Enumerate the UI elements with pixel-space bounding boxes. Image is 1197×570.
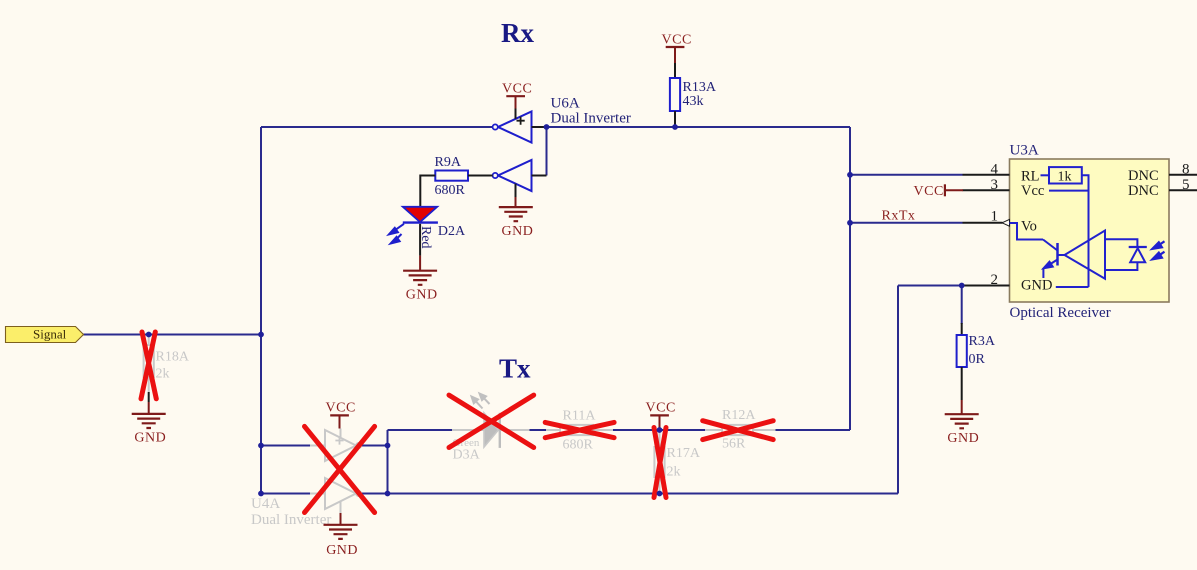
wire Signal row: flag tip to junction (84, 334, 262, 336)
deletion cross D3A (449, 395, 534, 447)
diode D3A triangle (ghost) (484, 413, 498, 447)
photon arrow 2 into photodiode (1152, 252, 1164, 260)
svg-text:GND: GND (502, 224, 534, 239)
svg-text:0R: 0R (969, 352, 986, 367)
diode D3A emission arrow 2 (ghost) (480, 394, 490, 405)
pin 1 line (963, 222, 1003, 224)
power VCC pin3 wire (945, 189, 963, 191)
ground R18A bars (132, 414, 166, 428)
diode D3A left pin (ghost) (452, 429, 484, 431)
deletion cross R18A (141, 332, 156, 399)
op-amp U4A plus mark (ghost) (335, 436, 343, 444)
wire U4A inv1 output bubble to node (361, 445, 388, 447)
resistor R17A bottom pin (ghost) (659, 477, 661, 494)
resistor R18A bottom pin (ghost) (148, 377, 150, 392)
pin 3 line (963, 189, 1010, 191)
junction R13A node (672, 124, 678, 130)
svg-text:GND: GND (326, 543, 358, 558)
pin 2 line (962, 285, 1010, 287)
resistor R3A bottom pin (961, 367, 963, 400)
power VCC U4A wire (339, 415, 341, 428)
diode D2A emission arrow 2 (391, 234, 402, 244)
diode D3A right pin (ghost) (501, 429, 530, 431)
ground R18A wire (148, 402, 150, 414)
ground R3A bars (945, 414, 979, 428)
op-amp U6A inverter 2 output bubble (493, 173, 498, 178)
svg-text:GND: GND (406, 287, 438, 302)
svg-text:R18A: R18A (156, 350, 190, 365)
junction U4A inv2 input (258, 491, 264, 497)
diode D2A cathode bar (403, 221, 438, 223)
junction U4A inv1 output (385, 443, 391, 449)
svg-text:Optical Receiver: Optical Receiver (1010, 305, 1111, 321)
op-amp U4A inverter 2 triangle (ghost) (325, 478, 356, 509)
svg-text:2k: 2k (156, 366, 170, 381)
svg-text:R12A: R12A (722, 408, 756, 423)
op-amp U4A inverter 1 bubble (ghost) (356, 443, 361, 448)
op-amp U6A inverter 2 ground pin (515, 184, 517, 199)
wire internal 1k to vertical rail (1082, 175, 1089, 287)
wire node vertical at U6A input x=546.5 (546, 127, 548, 176)
resistor R11A left pin (ghost) (546, 429, 560, 431)
deletion cross U4A (305, 426, 375, 512)
op-amp U6A inverter 1 plus mark (517, 117, 525, 125)
transistor Q internal collector (1043, 240, 1058, 251)
deletion cross R11A (545, 422, 614, 437)
op-amp U6A inverter 1 triangle (498, 112, 532, 143)
op-amp U4A inverter 2 bubble (ghost) (356, 491, 361, 496)
resistor R18A top pin (ghost) (148, 335, 150, 346)
wire Tx top row: U4A output node to D3A anode pin (388, 429, 453, 431)
junction U4A inv2 output (385, 491, 391, 497)
power VCC U6A wire (515, 96, 517, 108)
svg-text:DNC: DNC (1128, 183, 1159, 199)
svg-text:VCC: VCC (502, 82, 532, 97)
wire pin1 row RxTx: x=850 tap to U3A pin 1 (850, 222, 963, 224)
resistor R17A top pin (ghost) (659, 430, 661, 447)
svg-text:VCC: VCC (662, 32, 692, 47)
wire pin4 row: x=850 tap to U3A pin 4 (850, 174, 963, 176)
diode internal photodiode triangle (1130, 248, 1145, 262)
wire internal photodiode loop top (1105, 239, 1137, 247)
svg-text:Dual Inverter: Dual Inverter (251, 512, 331, 528)
resistor R18A body (ghost) (144, 345, 154, 377)
wire R18A to ground (148, 392, 150, 402)
svg-text:56R: 56R (722, 437, 746, 452)
op-amp U4A inverter 1 triangle (ghost) (325, 430, 356, 461)
junction pin4 tap (847, 172, 853, 178)
power VCC U4A bar (330, 414, 349, 416)
op-amp U6A inverter 2 input pin (532, 175, 547, 177)
wire vertical x=898 up to pin2 row (897, 286, 899, 494)
junction R17A top (657, 427, 663, 433)
svg-text:Tx: Tx (499, 354, 531, 384)
resistor R17A body (ghost) (654, 447, 664, 477)
svg-text:R11A: R11A (563, 409, 597, 424)
op-amp U4A inverter 1 power pin (ghost) (340, 429, 342, 438)
transistor Q internal base bar (1056, 243, 1059, 266)
op-amp internal amplifier triangle (1065, 231, 1106, 279)
svg-text:680R: 680R (435, 183, 466, 198)
ground R3A wire (961, 400, 963, 414)
wire U4A inv2 output bubble to node (361, 493, 388, 495)
resistor R13A top pin (674, 63, 676, 78)
svg-text:U6A: U6A (551, 96, 580, 112)
resistor 1k internal link from RL (1041, 174, 1050, 176)
op-amp U3A body box (1010, 159, 1170, 302)
ground U6A bars (499, 207, 533, 221)
wire Rx row: U6A input node to R13A node to x=850 (547, 126, 851, 128)
wire internal Vo step (1010, 223, 1044, 240)
wire Tx top row: R17A node to R12A left (660, 429, 706, 431)
wire R3A top: node down to resistor (961, 286, 963, 325)
resistor 1k body (1049, 167, 1082, 183)
junction R18A tap (146, 332, 152, 338)
resistor R11A body (ghost) (560, 425, 593, 435)
svg-text:U3A: U3A (1010, 143, 1039, 159)
ground U6A wire (515, 197, 517, 207)
wire Tx top row: x=850 to R12A right pin (776, 429, 851, 431)
svg-text:VCC: VCC (326, 401, 356, 416)
power VCC R13A bar (666, 46, 685, 48)
power VCC U6A bar (506, 95, 525, 97)
op-amp U6A inverter 2 triangle (498, 160, 532, 191)
op-amp U6A inverter 1 output bubble (493, 124, 498, 129)
op-amp U6A inverter 1 input pin (532, 126, 547, 128)
wire internal Vcc to rail (1049, 190, 1089, 192)
junction U6A input node (544, 124, 550, 130)
svg-text:Vo: Vo (1021, 219, 1037, 235)
deletion cross R12A (703, 421, 774, 440)
resistor R12A right pin (ghost) (753, 429, 776, 431)
diode D2A emission arrow 1 (389, 224, 404, 235)
svg-text:R9A: R9A (435, 155, 462, 170)
svg-text:DNC: DNC (1128, 168, 1159, 184)
wire internal base-to-apex (1058, 254, 1065, 256)
svg-text:680R: 680R (563, 437, 594, 452)
power VCC pin3 bar (944, 184, 946, 196)
svg-text:U4A: U4A (251, 496, 280, 512)
pin 1 output arrow (1002, 219, 1010, 226)
transistor Q internal emitter stub (1042, 268, 1044, 278)
resistor R13A bottom pin (674, 111, 676, 127)
wire U4A inv2 input from trunk (261, 493, 310, 495)
ground U4A bars (324, 525, 358, 539)
wire vertical trunk x=261 from Rx row down to U4A bottom input row (260, 127, 262, 494)
ground D2A bars (403, 271, 437, 285)
svg-text:2k: 2k (667, 464, 681, 479)
junction Signal/trunk (258, 332, 264, 338)
resistor R12A body (ghost) (722, 425, 753, 435)
wire U4A output node vertical x=387.5 (387, 430, 389, 494)
svg-text:5: 5 (1182, 177, 1190, 193)
svg-text:Red: Red (418, 226, 433, 249)
power VCC R13A wire (674, 47, 676, 63)
diode D3A emission arrow 1 (ghost) (472, 397, 483, 409)
op-amp U4A inverter 2 ground pin (ghost) (340, 501, 342, 513)
junction U4A inv1 input (258, 443, 264, 449)
junction R3A node (959, 283, 965, 289)
diode D3A cathode bar (ghost) (499, 413, 501, 448)
wire internal GND to rail (1056, 286, 1089, 288)
svg-text:1: 1 (991, 208, 999, 224)
op-amp U4A inverter 2 input pin (ghost) (310, 493, 325, 495)
svg-text:Dual Inverter: Dual Inverter (551, 111, 631, 127)
power VCC R17A bar (650, 414, 669, 416)
diode internal photodiode cathode bar (1129, 246, 1147, 248)
wire Tx top row: R11A right pin to R17A node (613, 429, 660, 431)
junction R17A bottom (657, 491, 663, 497)
wire U4A inv1 input from trunk (261, 445, 310, 447)
ground D2A wire (419, 256, 421, 271)
ground U4A wire (340, 513, 342, 525)
wire vertical x=850 down to Tx top row (849, 127, 851, 430)
svg-text:RxTx: RxTx (882, 209, 916, 224)
pin 8 line (1169, 174, 1197, 176)
resistor R9A body (435, 171, 468, 181)
svg-text:Vcc: Vcc (1021, 183, 1044, 199)
svg-text:Rx: Rx (501, 18, 534, 48)
diode D2A triangle (403, 207, 437, 222)
svg-text:R17A: R17A (667, 446, 701, 461)
junction pin1 tap (847, 220, 853, 226)
resistor R3A body (957, 335, 967, 367)
wire internal photodiode loop bottom (1105, 262, 1137, 270)
deletion cross R17A (654, 428, 666, 498)
svg-text:VCC: VCC (914, 184, 944, 199)
svg-text:4: 4 (991, 161, 999, 177)
svg-text:Signal: Signal (33, 327, 67, 342)
svg-text:D3A: D3A (453, 448, 481, 463)
svg-text:8: 8 (1182, 161, 1190, 177)
resistor R11A right pin (ghost) (593, 429, 613, 431)
resistor R3A top pin (961, 323, 963, 335)
op-amp U4A inverter 1 input pin (ghost) (310, 445, 325, 447)
transistor Q internal emitter with arrow (1044, 260, 1058, 269)
op-amp U6A inverter 1 power pin (515, 108, 517, 119)
wire Tx top row: D3A cathode to R11A left pin (530, 429, 547, 431)
svg-text:GND: GND (1021, 278, 1052, 294)
pin 5 line (1169, 189, 1197, 191)
wire Tx bottom row: U4A node to x=898 (388, 493, 899, 495)
wire Rx row: trunk to U6A inv1 output bubble (261, 126, 493, 128)
resistor R9A right pin to bubble (468, 175, 493, 177)
resistor R12A left pin (ghost) (705, 429, 722, 431)
resistor R13A body (670, 78, 680, 111)
power VCC R17A wire (659, 415, 661, 430)
svg-text:R13A: R13A (683, 80, 717, 95)
svg-text:VCC: VCC (646, 401, 676, 416)
svg-text:D2A: D2A (438, 224, 466, 239)
svg-text:43k: 43k (683, 94, 704, 109)
wire pin2 row: x=898 to R3A node (898, 285, 962, 287)
resistor R9A left pin and elbow down (420, 176, 435, 208)
svg-text:3: 3 (991, 177, 999, 193)
photon arrow 1 into photodiode (1152, 241, 1164, 249)
svg-text:2: 2 (991, 272, 999, 288)
svg-text:R3A: R3A (969, 334, 996, 349)
diode D2A bottom pin (419, 224, 421, 256)
pin 4 line (963, 174, 1010, 176)
node Signal flag (6, 327, 84, 343)
svg-text:GND: GND (947, 431, 979, 446)
svg-text:1k: 1k (1058, 170, 1072, 185)
svg-text:GND: GND (134, 431, 166, 446)
